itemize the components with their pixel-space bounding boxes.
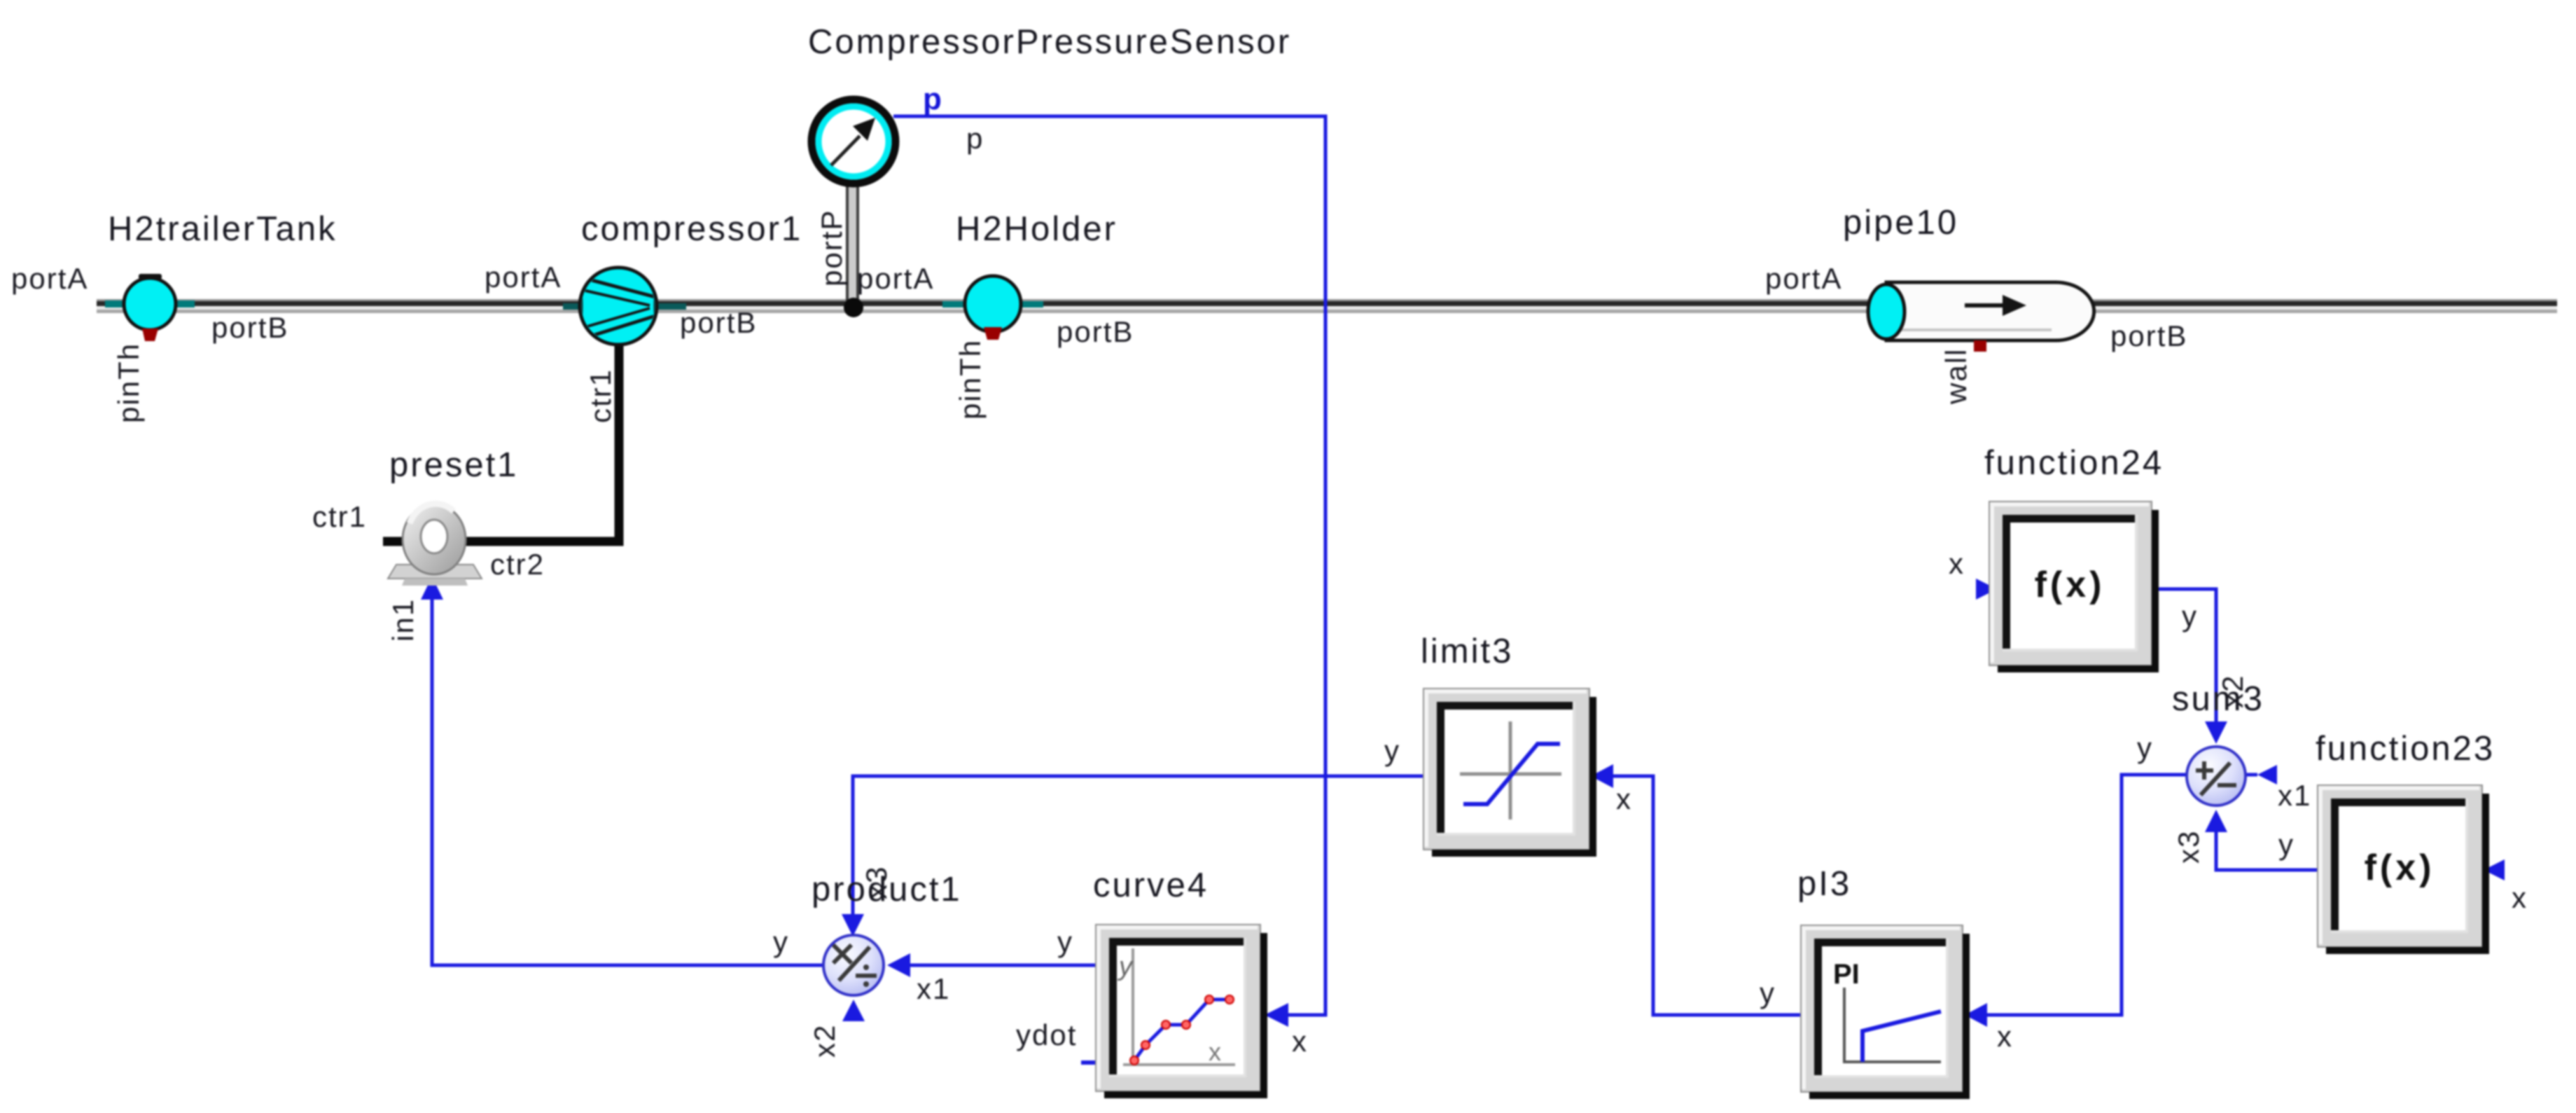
svg-text:preset1: preset1 <box>389 446 518 484</box>
svg-text:ctr2: ctr2 <box>490 548 545 581</box>
svg-text:ydot: ydot <box>1016 1018 1077 1051</box>
wire sensor stem portP <box>846 184 859 304</box>
input stub function23.x <box>2484 859 2505 880</box>
input stub product1.x2 <box>842 1000 865 1021</box>
svg-text:pI3: pI3 <box>1797 865 1851 903</box>
svg-text:x: x <box>1997 1020 2013 1053</box>
svg-text:in1: in1 <box>387 598 419 642</box>
svg-text:ctr1: ctr1 <box>584 368 617 423</box>
preset preset1 ring <box>388 504 482 586</box>
svg-text:x1: x1 <box>2278 779 2311 812</box>
sensor gauge CompressorPressureSensor <box>812 99 896 184</box>
svg-text:p: p <box>923 82 943 116</box>
svg-text:H2Holder: H2Holder <box>956 210 1118 248</box>
svg-text:x: x <box>1949 547 1965 580</box>
svg-text:p: p <box>966 122 984 155</box>
pipe pipe10 <box>1868 282 2094 352</box>
block function23 <box>2318 785 2489 954</box>
sum3 plus/minus circle <box>2187 747 2246 806</box>
svg-text:y: y <box>1057 925 1073 958</box>
svg-text:f(x): f(x) <box>2365 848 2435 888</box>
svg-text:y: y <box>2137 731 2153 764</box>
svg-text:H2trailerTank: H2trailerTank <box>108 210 337 248</box>
svg-text:y: y <box>2182 600 2198 632</box>
svg-text:y: y <box>1760 976 1776 1009</box>
svg-text:y: y <box>773 925 789 958</box>
block curve4 <box>1096 925 1267 1098</box>
wire main fluid line <box>97 299 2557 313</box>
svg-text:limit3: limit3 <box>1421 632 1513 670</box>
stub curve4.ydot <box>1081 1060 1105 1065</box>
svg-text:x2: x2 <box>2216 675 2249 708</box>
svg-text:portA: portA <box>857 262 934 295</box>
svg-text:function23: function23 <box>2316 730 2495 768</box>
svg-text:portA: portA <box>485 261 562 293</box>
wire sum3.y to pI3.x <box>1965 775 2187 1027</box>
svg-text:pinTh: pinTh <box>954 339 987 420</box>
svg-text:y: y <box>2278 828 2295 861</box>
input stub sum3.x1 <box>2246 765 2277 784</box>
tank H2Holder <box>942 276 1043 340</box>
svg-text:portA: portA <box>11 262 88 295</box>
block limit3 <box>1423 689 1596 857</box>
wire control line compressor1.ctr1 to preset1.ctr2 <box>383 343 619 541</box>
wire product1.y to preset1.in1 <box>421 576 823 965</box>
svg-text:function24: function24 <box>1984 444 2164 482</box>
svg-text:portB: portB <box>680 306 757 339</box>
svg-text:x: x <box>2512 881 2528 914</box>
svg-text:curve4: curve4 <box>1093 866 1209 904</box>
wire function24.y to sum3 top <box>2159 589 2227 744</box>
svg-text:portB: portB <box>1057 315 1134 348</box>
wire function23.y to sum3 bottom <box>2205 810 2318 870</box>
svg-text:pinTh: pinTh <box>112 343 145 423</box>
svg-text:x3: x3 <box>2172 830 2205 864</box>
input stub function24.x <box>1976 579 1997 600</box>
svg-text:x: x <box>1292 1025 1308 1058</box>
svg-text:portB: portB <box>211 311 288 344</box>
wire limit3.y to product1 top <box>842 776 1423 936</box>
svg-text:wall: wall <box>1940 348 1972 405</box>
product1 multiply/divide circle <box>823 935 884 995</box>
svg-text:CompressorPressureSensor: CompressorPressureSensor <box>808 23 1291 61</box>
svg-text:x: x <box>1209 1037 1221 1066</box>
svg-text:x1: x1 <box>917 972 950 1005</box>
wire curve4.y to product1.x1 <box>887 953 1096 977</box>
block pI3 <box>1801 925 1970 1099</box>
svg-text:pipe10: pipe10 <box>1843 204 1958 242</box>
svg-text:y: y <box>1384 734 1400 767</box>
tank H2trailerTank <box>105 274 195 341</box>
svg-text:y: y <box>1117 952 1134 981</box>
svg-text:PI: PI <box>1833 959 1860 990</box>
svg-text:x3: x3 <box>860 866 893 899</box>
wire sensor p to curve4.x <box>893 116 1325 1027</box>
svg-text:x2: x2 <box>808 1024 841 1058</box>
svg-text:compressor1: compressor1 <box>581 210 802 248</box>
wire pI3.y to limit3.x <box>1591 764 1801 1015</box>
compressor compressor1 <box>563 268 686 345</box>
svg-text:portA: portA <box>1765 262 1842 295</box>
svg-text:x: x <box>1616 782 1632 815</box>
svg-text:ctr1: ctr1 <box>312 500 367 533</box>
svg-text:portB: portB <box>2110 319 2187 352</box>
svg-text:f(x): f(x) <box>2035 565 2105 605</box>
junction node on main line <box>844 298 863 317</box>
block function24 <box>1989 502 2159 672</box>
svg-text:portP: portP <box>815 209 848 286</box>
